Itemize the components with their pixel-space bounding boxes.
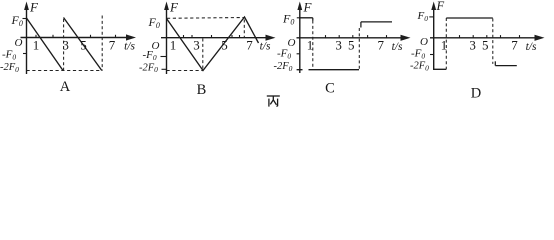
A x-axis arrowhead [126, 34, 136, 40]
D dashed vertical at t=1 [445, 18, 447, 69]
svg-text:3: 3 [193, 38, 200, 53]
svg-text:F0: F0 [11, 13, 23, 28]
B dashed horizontal at -2F0 [167, 70, 203, 72]
D top segment at F0 (t 1-5) [446, 17, 493, 19]
B y-axis [166, 6, 168, 74]
A -F0 tick on y-axis [23, 53, 27, 55]
C axis tick [338, 35, 340, 38]
B -F0 tick on y-axis [161, 56, 167, 58]
svg-text:1: 1 [441, 38, 448, 53]
C dashed vertical at t=5 [358, 28, 360, 70]
B x-axis arrowhead [266, 35, 276, 41]
A y-axis arrowhead [24, 2, 29, 11]
svg-text:7: 7 [511, 38, 518, 53]
D y-axis arrowhead [431, 2, 436, 11]
D y-axis [433, 6, 435, 70]
svg-text:F0: F0 [282, 12, 294, 27]
D axis tick [472, 35, 474, 38]
B axis tick [183, 35, 185, 38]
B dashed vertical at t=3 vertex [202, 39, 204, 71]
D dashed vertical at t=5 [492, 19, 494, 64]
svg-text:O: O [15, 37, 23, 49]
svg-text:7: 7 [246, 38, 253, 53]
B axis tick [239, 35, 241, 38]
svg-text:O: O [420, 36, 428, 48]
svg-text:-2F0: -2F0 [0, 62, 19, 74]
C dashed vertical at t=1 [312, 21, 314, 70]
C axis tick [367, 35, 369, 38]
A x-axis [21, 37, 129, 39]
svg-text:t/s: t/s [526, 41, 537, 53]
svg-text:1: 1 [307, 38, 314, 53]
svg-text:O: O [288, 37, 296, 49]
panel D [410, 0, 545, 102]
D -F0 tick on y-axis [430, 54, 434, 56]
B -2F0 tick on y-axis [162, 68, 167, 70]
A axis tick t=1 [35, 35, 37, 38]
svg-text:F: F [436, 0, 445, 13]
C x-axis [297, 37, 403, 39]
C x-axis arrowhead [401, 35, 411, 41]
B axis tick [211, 35, 213, 38]
A y-axis [26, 6, 28, 74]
svg-text:5: 5 [221, 38, 228, 53]
D bottom-right stub [494, 61, 496, 65]
D axis tick [486, 35, 488, 38]
svg-text:5: 5 [348, 38, 355, 53]
svg-text:F: F [29, 0, 39, 15]
svg-text:F: F [303, 0, 313, 15]
svg-text:F: F [169, 0, 179, 15]
D x-axis [430, 37, 537, 39]
svg-text:-F0: -F0 [277, 47, 291, 60]
svg-text:-2F0: -2F0 [410, 61, 429, 73]
D bottom-right segment [495, 65, 517, 67]
C pulse at F0 (t 0-1) [300, 17, 313, 19]
C axis tick [386, 35, 388, 38]
C -2F0 tick on y-axis [297, 69, 303, 71]
A dashed vertical at t=6 [101, 16, 103, 71]
panel C [274, 0, 411, 97]
D axis tick [459, 35, 461, 38]
svg-text:7: 7 [109, 38, 116, 53]
svg-text:D: D [471, 86, 481, 102]
svg-text:-2F0: -2F0 [274, 61, 293, 73]
B x-axis [161, 37, 268, 39]
panel A [0, 0, 136, 95]
svg-text:3: 3 [335, 38, 342, 53]
svg-text:5: 5 [482, 38, 489, 53]
svg-text:C: C [325, 81, 335, 97]
C y-axis arrowhead [297, 2, 302, 11]
A axis tick t=7 [115, 35, 117, 38]
caption character bing (third figure) [267, 96, 280, 107]
A dashed horizontal at -2F0 [27, 70, 103, 72]
svg-text:3: 3 [469, 38, 476, 53]
D bottom-left segment at -2F0 (t 0-1) [433, 68, 446, 70]
svg-text:7: 7 [377, 38, 384, 53]
B zigzag curve [167, 17, 259, 71]
D F0 tick on y-axis [429, 16, 433, 18]
C axis tick [352, 35, 354, 38]
svg-text:t/s: t/s [260, 41, 271, 53]
D x-axis arrowhead [535, 35, 545, 41]
B dashed vertical under apex [243, 20, 245, 38]
svg-text:F0: F0 [148, 15, 160, 30]
B dashed horizontal at F0 [167, 17, 244, 20]
C bottom segment at -2F0 (t 1-5) [309, 69, 360, 71]
C axis tick [325, 35, 327, 38]
svg-text:A: A [60, 79, 71, 95]
svg-text:t/s: t/s [124, 41, 135, 53]
C F0 tick on y-axis [297, 17, 300, 19]
A axis tick t=5 [90, 35, 92, 38]
A axis tick t=2 [52, 35, 54, 38]
B y-axis arrowhead [164, 2, 169, 11]
svg-text:3: 3 [62, 38, 69, 53]
svg-text:B: B [197, 82, 207, 98]
svg-text:-2F0: -2F0 [139, 62, 158, 74]
svg-text:1: 1 [33, 38, 40, 53]
C -F0 tick on y-axis [297, 53, 300, 55]
svg-text:5: 5 [80, 38, 87, 53]
C upper-right stub [360, 22, 362, 28]
A dashed vertical at t=3 [63, 19, 65, 71]
panel B [139, 0, 276, 98]
A F0 tick on y-axis [23, 18, 27, 20]
C y-axis [299, 6, 301, 73]
A curve segment 2 (F0 to -2F0, t 3-6) [64, 18, 102, 71]
B axis tick [191, 35, 193, 38]
svg-text:1: 1 [170, 38, 177, 53]
D axis tick [519, 35, 521, 38]
C upper-right segment [361, 21, 392, 23]
svg-text:F0: F0 [417, 10, 429, 23]
svg-text:-F0: -F0 [411, 48, 425, 61]
B axis tick [231, 35, 233, 38]
D axis tick [500, 35, 502, 38]
svg-text:t/s: t/s [392, 41, 403, 53]
C pulse right corner [312, 18, 314, 21]
svg-text:-F0: -F0 [2, 49, 16, 62]
A curve segment 1 (F0 to -2F0, t 0-3) [27, 18, 64, 71]
